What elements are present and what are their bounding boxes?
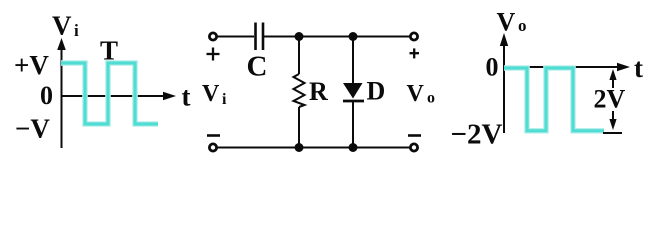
- svg-text:V: V: [497, 8, 516, 37]
- terminal top-right: [410, 33, 417, 40]
- svg-text:i: i: [222, 91, 227, 108]
- svg-text:D: D: [367, 77, 386, 106]
- t axis (input): [62, 92, 177, 100]
- svg-text:V: V: [52, 11, 72, 41]
- plus sign input: [207, 48, 220, 61]
- svg-text:t: t: [182, 82, 191, 112]
- wire top-mid to right terminal: [264, 36, 410, 38]
- svg-text:o: o: [518, 16, 527, 35]
- junction node top-R: [295, 32, 304, 41]
- wire top-left to capacitor: [217, 36, 254, 38]
- svg-text:−2V: −2V: [451, 119, 503, 151]
- svg-text:o: o: [427, 90, 435, 107]
- svg-text:0: 0: [486, 53, 499, 82]
- terminal top-left: [209, 33, 216, 40]
- junction node top-D: [349, 32, 358, 41]
- input square wave: [61, 63, 158, 124]
- resistor R: [294, 37, 305, 148]
- junction node bottom-R: [295, 143, 304, 152]
- svg-text:V: V: [202, 81, 220, 107]
- Vi axis vertical: [57, 38, 66, 148]
- svg-text:R: R: [309, 77, 328, 106]
- svg-text:V: V: [407, 81, 425, 107]
- junction node bottom-D: [349, 143, 358, 152]
- svg-text:0: 0: [40, 81, 53, 110]
- terminal bottom-right: [410, 144, 417, 151]
- plus sign output: [410, 48, 420, 58]
- svg-text:C: C: [247, 51, 268, 83]
- diode D: [343, 37, 364, 148]
- svg-text:2V: 2V: [594, 85, 626, 114]
- minus sign output: [408, 134, 421, 137]
- svg-text:i: i: [74, 21, 79, 40]
- svg-text:−V: −V: [15, 114, 50, 144]
- t axis (output): [504, 63, 630, 71]
- label Vo (circuit output): [407, 81, 436, 107]
- Vo axis vertical: [500, 33, 508, 133]
- dimension arrow 2V lower: [603, 111, 622, 133]
- svg-text:+V: +V: [14, 50, 49, 80]
- bottom wire: [217, 147, 410, 149]
- output square wave: [504, 68, 604, 131]
- Vi axis label: [52, 11, 79, 41]
- Vo axis label: [497, 8, 527, 37]
- label Vi (circuit input): [202, 81, 227, 108]
- terminal bottom-left: [209, 144, 216, 151]
- dimension arrow 2V upper: [609, 69, 616, 88]
- capacitor C plates: [256, 23, 264, 51]
- svg-text:t: t: [634, 53, 643, 83]
- minus sign input: [207, 134, 220, 137]
